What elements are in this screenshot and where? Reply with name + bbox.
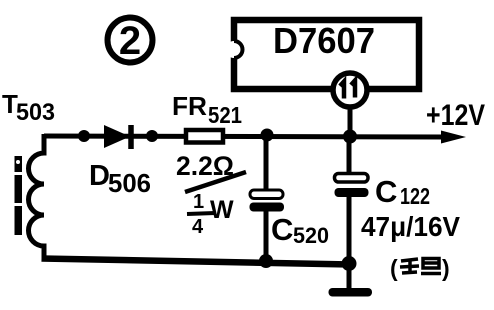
svg-text:1: 1 bbox=[193, 191, 204, 213]
capacitor C122 label bbox=[375, 174, 430, 209]
node F junction dot (bottom rail / ground) bbox=[342, 256, 357, 271]
svg-text:FR: FR bbox=[172, 91, 207, 121]
svg-text:D: D bbox=[89, 160, 110, 192]
svg-text:C: C bbox=[375, 174, 397, 209]
transformer T503 winding bbox=[28, 134, 44, 260]
svg-text:4: 4 bbox=[192, 216, 204, 238]
node E junction dot (rail / C122) bbox=[343, 130, 357, 144]
resistor FR521 label bbox=[172, 91, 242, 128]
pin 11 of U1 bbox=[333, 73, 367, 107]
ground bbox=[329, 288, 373, 297]
svg-text:503: 503 bbox=[16, 99, 55, 126]
svg-text:506: 506 bbox=[108, 168, 151, 198]
capacitor C520 label bbox=[271, 212, 329, 248]
node A junction dot bbox=[78, 130, 90, 142]
svg-text:122: 122 bbox=[400, 183, 430, 209]
svg-text:(: ( bbox=[390, 255, 398, 281]
capacitor C520 bbox=[250, 190, 285, 212]
diode D506 bbox=[104, 125, 131, 149]
diode D506 label bbox=[89, 160, 151, 198]
svg-text:2: 2 bbox=[119, 19, 141, 63]
node +12V arrow bbox=[441, 131, 466, 144]
capacitor C520 bottom wire bbox=[264, 211, 269, 262]
wire bottom rail bbox=[42, 259, 352, 265]
resistor value 1/4 W bbox=[187, 191, 234, 238]
svg-text:): ) bbox=[442, 255, 450, 281]
figure number 2 (circled) bbox=[108, 18, 153, 64]
svg-text:+12V: +12V bbox=[426, 99, 485, 132]
transformer T503 label bbox=[2, 89, 55, 126]
svg-text:47μ/16V: 47μ/16V bbox=[361, 211, 460, 242]
node B junction dot bbox=[146, 130, 158, 142]
svg-text:521: 521 bbox=[208, 102, 242, 128]
annotation (character display) bbox=[390, 255, 450, 281]
transformer core bar bbox=[14, 156, 24, 235]
svg-text:520: 520 bbox=[293, 223, 329, 248]
node C junction dot (top of C520) bbox=[261, 129, 274, 142]
svg-text:C: C bbox=[271, 212, 293, 247]
capacitor C122 bottom wire bbox=[347, 197, 352, 292]
capacitor C122 bbox=[335, 174, 369, 198]
value divider slash bbox=[185, 172, 246, 192]
resistor FR521 bbox=[186, 130, 223, 143]
svg-text:W: W bbox=[210, 196, 234, 224]
wire +12V rail bbox=[44, 136, 448, 137]
svg-text:D7607: D7607 bbox=[273, 20, 375, 61]
wire pin11 to +12V rail bbox=[348, 107, 353, 136]
node D junction dot (bottom of C520) bbox=[259, 254, 273, 268]
IC U1 D7607 bbox=[226, 20, 420, 89]
capacitor C122 top wire bbox=[347, 137, 352, 176]
capacitor C520 top wire bbox=[264, 136, 269, 192]
